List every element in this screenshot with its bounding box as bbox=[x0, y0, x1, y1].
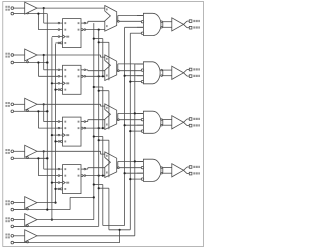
wire CP-en bbox=[14, 229, 121, 243]
wire under mux M3 b bbox=[98, 139, 109, 177]
wire buffer4 to mux M4 in1 bbox=[37, 151, 105, 154]
wire AND G1 outputs bbox=[161, 21, 172, 28]
bus x=98.7 bbox=[98, 30, 100, 227]
wire enable1 to FF1 pin D bbox=[28, 13, 60, 30]
wire mux M1 out to AND1 bbox=[118, 16, 144, 22]
wire MR-en to bus bbox=[14, 225, 99, 227]
tri-state input buffer U6 bbox=[5, 214, 37, 228]
mux M2 bbox=[105, 55, 119, 81]
wire FF2 Q bbox=[85, 69, 104, 72]
output driver buffer B2 bbox=[172, 66, 184, 79]
wire under mux M1 b bbox=[98, 41, 109, 80]
mux M4 bbox=[105, 152, 119, 178]
output ports Q3 bbox=[189, 166, 200, 175]
wire driver B2 fanout bbox=[184, 70, 190, 77]
wire driver B4 fanout bbox=[184, 167, 190, 174]
wire AND G4 outputs bbox=[161, 167, 172, 174]
tri-state input buffer U2 bbox=[5, 49, 37, 64]
D flip-flop FF3 bbox=[58, 117, 85, 146]
wire FF2 Qbar bbox=[85, 75, 104, 77]
tri-state input buffer U1 bbox=[5, 2, 37, 15]
AND gate G2 bbox=[137, 62, 160, 84]
output ports Q1 bbox=[189, 68, 200, 77]
output ports Q2 bbox=[189, 118, 200, 127]
D flip-flop FF1 bbox=[58, 19, 85, 48]
bus CLK x=51.9 bbox=[51, 37, 60, 221]
wire under mux M2 b bbox=[98, 90, 109, 130]
wire FF3 Qbar bbox=[85, 127, 104, 129]
mux M1 bbox=[105, 6, 119, 32]
wire AND G2 outputs bbox=[161, 69, 172, 76]
D flip-flop FF2 bbox=[58, 65, 85, 94]
wire buffer2 to FF2 pin S bbox=[43, 54, 60, 70]
wire under mux M1 a bbox=[93, 38, 104, 78]
bus x=134.8 (AND in1 rows2-4) bbox=[134, 64, 144, 236]
output ports Q0 bbox=[189, 20, 200, 29]
wire FF3 Q bbox=[85, 120, 104, 122]
wire FF1 Qbar bbox=[85, 29, 104, 31]
D flip-flop FF4 bbox=[58, 165, 85, 194]
bus x=93.8 bbox=[93, 23, 95, 220]
bus R x=55.5 bbox=[54, 43, 59, 204]
wire mux M4 out to AND4 bbox=[118, 161, 144, 167]
wire S0 out bbox=[37, 202, 56, 204]
wire under mux M4 b bbox=[98, 187, 131, 230]
wire under mux M3 a bbox=[93, 135, 104, 176]
AND gate G1 bbox=[137, 13, 161, 35]
wire MR out to bus bbox=[37, 219, 94, 221]
wire buffer3 to mux M3 in1 bbox=[37, 104, 105, 106]
wire FF4 Q bbox=[85, 168, 104, 169]
wire under mux M2 a bbox=[93, 86, 104, 129]
wire driver B3 fanout bbox=[184, 119, 190, 126]
wire driver B1 fanout bbox=[184, 21, 190, 28]
wire enable3 to FF3 pin D bbox=[28, 110, 60, 128]
output driver buffer B4 bbox=[172, 164, 184, 177]
wire enable2 to FF2 pin D bbox=[28, 61, 60, 76]
tri-state input buffer U3 bbox=[5, 98, 37, 112]
wire mux M2 out to AND2 bbox=[118, 64, 144, 71]
wire mux M3 out to AND3 bbox=[118, 113, 144, 119]
wire CP out to bus bbox=[37, 235, 135, 237]
wire buffer3 to FF3 pin S bbox=[43, 103, 60, 121]
output driver buffer B1 bbox=[172, 18, 184, 31]
tri-state input buffer U4 bbox=[5, 145, 37, 159]
wire enable4 to FF4 pin D bbox=[28, 157, 60, 175]
wire S1 hook bbox=[14, 196, 95, 210]
wire buffer4 to FF4 pin S bbox=[43, 150, 60, 169]
tri-state input buffer U7 bbox=[5, 230, 37, 244]
wire buffer2 to mux M2 in1 bbox=[37, 55, 105, 57]
AND gate G4 bbox=[137, 159, 161, 181]
wire FF4 Qbar bbox=[85, 175, 104, 177]
wire buffer1 to mux M1 in1 bbox=[37, 7, 105, 9]
wire under mux M4 a bbox=[93, 183, 125, 225]
mux M3 bbox=[105, 104, 119, 130]
wire FF1 Q bbox=[85, 21, 104, 23]
tri-state input buffer U5 bbox=[5, 197, 37, 211]
bus x=124.6 (AND in3) bbox=[124, 27, 144, 225]
AND gate G3 bbox=[137, 111, 161, 133]
output driver buffer B3 bbox=[172, 116, 184, 129]
bus x=130.3 (AND in4) bbox=[129, 33, 141, 230]
bus ENB x=47.3 bbox=[46, 14, 48, 210]
wire buffer1 to FF1 pin S bbox=[43, 7, 60, 23]
wire AND G3 outputs bbox=[161, 119, 172, 126]
border frame bbox=[3, 2, 204, 247]
